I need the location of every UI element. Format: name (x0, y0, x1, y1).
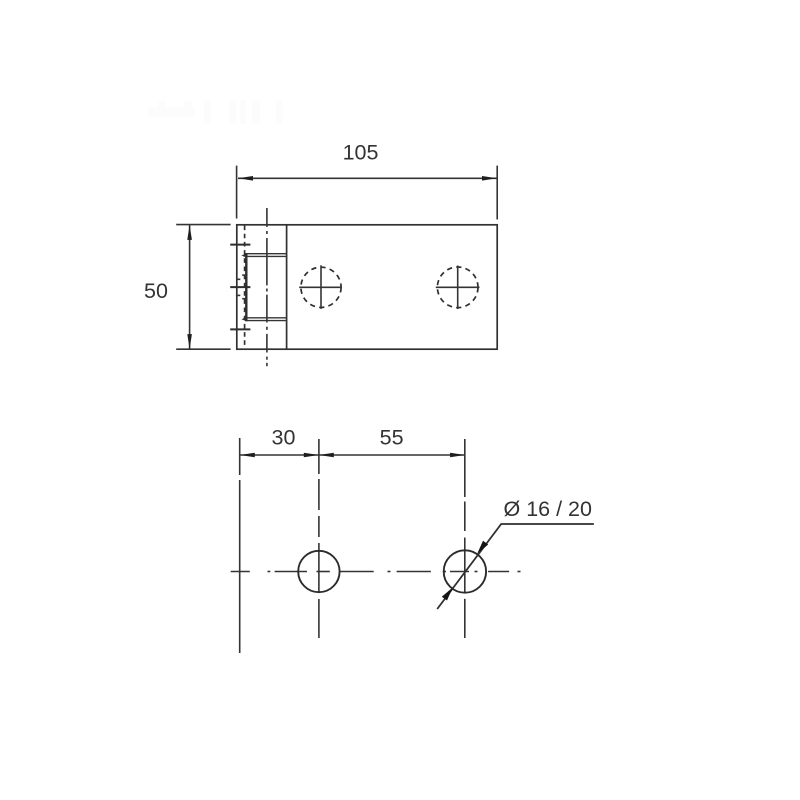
dim 30 arrow right (304, 453, 319, 458)
serration mark mid upper left (237, 278, 241, 280)
dim 105 line (238, 177, 497, 179)
dim 55 arrow right (450, 453, 465, 458)
leader arrow upper (477, 541, 488, 554)
svg-text:Ø 16 / 20: Ø 16 / 20 (504, 497, 592, 521)
hidden hole left (dashed circle) (301, 267, 341, 307)
serration mark mid upper right (242, 274, 246, 276)
leader line (437, 524, 594, 609)
dim 50 extension line bottom (176, 348, 230, 350)
slot top double line (245, 253, 287, 255)
gasket dashed line (244, 226, 246, 349)
tick mark upper (230, 244, 250, 246)
dim 30 line (240, 454, 319, 456)
dim 50 arrow top (187, 225, 192, 240)
faint watermark remnant top-left (148, 100, 282, 124)
slot bottom double line (247, 317, 287, 319)
svg-text:55: 55 (380, 426, 404, 450)
serration mark mid lower right (242, 298, 246, 300)
dim 55 arrow left (319, 453, 334, 458)
serration wedge top (241, 254, 247, 258)
svg-text:50: 50 (144, 279, 168, 303)
dim 105 arrow left (238, 176, 253, 181)
dim 50 line (189, 225, 191, 349)
clamp strip right edge (286, 225, 288, 349)
hidden hole right cross (436, 286, 480, 288)
hole 2 centre line (vertical) (464, 439, 466, 638)
tick mark middle (230, 286, 250, 288)
left edge centre line (vertical, dashed) (239, 438, 241, 653)
hole 1 (298, 551, 339, 592)
hinge centre line (266, 208, 268, 366)
dim 30 arrow left (240, 453, 255, 458)
plate outline (237, 225, 497, 349)
dim 105 extension line left (236, 166, 238, 219)
serration wedge bottom (241, 317, 247, 322)
serration mark mid lower left (237, 294, 241, 296)
hidden hole right (dashed circle) (437, 267, 478, 308)
svg-text:105: 105 (343, 141, 379, 165)
slot left thick edge (245, 253, 247, 321)
horizontal centre line through holes (231, 571, 521, 573)
hole 1 centre line (vertical) (318, 439, 320, 638)
hidden hole left cross (299, 286, 341, 288)
dim 50 extension line top (176, 224, 230, 226)
dim 105 arrow right (482, 176, 497, 181)
dim 50 arrow bottom (187, 334, 192, 349)
dim 105 extension line right (496, 166, 498, 220)
svg-text:30: 30 (272, 426, 296, 450)
dim 55 line (319, 454, 465, 456)
hole 2 (444, 550, 486, 592)
tick mark lower (230, 328, 250, 330)
leader arrow lower (442, 587, 453, 600)
